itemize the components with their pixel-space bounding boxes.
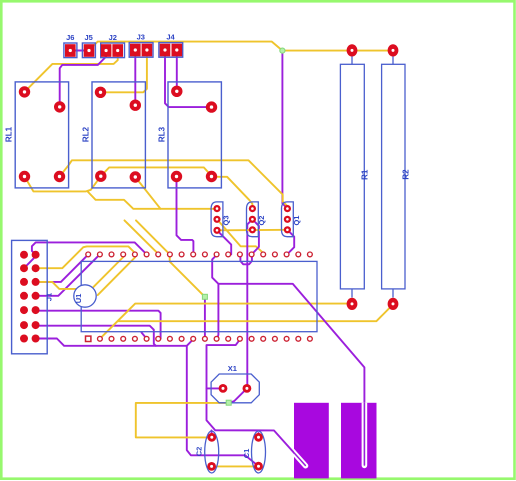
svg-text:J5: J5 bbox=[85, 33, 93, 42]
wire J1-R6 run bbox=[36, 325, 156, 346]
svg-text:J4: J4 bbox=[166, 33, 175, 42]
wire RL1 pad3 to RL2 pad3 bbox=[25, 176, 101, 191]
resistor R1 bbox=[340, 56, 364, 298]
wire stub C2 top bbox=[211, 430, 213, 436]
via node A bbox=[280, 48, 285, 53]
wire J3 to RL2 pad1 bbox=[101, 53, 147, 92]
svg-text:RL1: RL1 bbox=[5, 126, 14, 142]
wire RL2 pad4 diag bbox=[135, 177, 160, 209]
svg-text:Q3: Q3 bbox=[222, 215, 231, 225]
svg-text:C1: C1 bbox=[242, 449, 251, 459]
transistor Q2 pads bbox=[249, 205, 256, 212]
wire via2 down bbox=[204, 297, 206, 339]
wire RL1 pad4 to Q1 bbox=[60, 160, 288, 206]
wire down to bottom pin bbox=[217, 284, 218, 339]
svg-text:R1: R1 bbox=[361, 169, 370, 180]
wire J6 to J5 bbox=[70, 50, 89, 52]
wire U1 to X1/C2/pour bbox=[207, 339, 306, 466]
wire branch X1 pad1 bbox=[207, 387, 224, 389]
wire Q3 pad2 to U1 bbox=[217, 219, 264, 254]
wire J1 to U1 bottom pin6 bbox=[36, 310, 161, 339]
svg-text:RL2: RL2 bbox=[81, 126, 90, 142]
wire J1-1 over U1 to pin bbox=[32, 242, 147, 254]
wire pads hook bbox=[240, 254, 252, 264]
wire net J5 to R1/R2 top bbox=[89, 42, 393, 51]
connector J6 bbox=[64, 43, 77, 58]
via node B bbox=[202, 294, 207, 299]
transistor Q1 pads bbox=[284, 205, 291, 212]
wire U1 pad7 to via2 bbox=[170, 254, 205, 296]
wire stub pad5B bbox=[142, 333, 147, 339]
wire Q1 pad3 to U1 bbox=[287, 230, 294, 255]
transistor Q3 pads bbox=[213, 205, 220, 212]
wire J2 to RL1 pad2 bbox=[60, 53, 106, 107]
wire RL2 pad3 to RL3 pad4 bbox=[101, 167, 212, 176]
svg-text:J2: J2 bbox=[109, 33, 117, 42]
relay RL3 bbox=[168, 82, 221, 188]
op-amp U1 outline bbox=[74, 261, 317, 331]
wire Q2 to U1 bbox=[252, 219, 259, 254]
capacitor C2 bbox=[205, 431, 219, 473]
relay RL1 pads bbox=[19, 86, 30, 97]
via node C bbox=[226, 400, 231, 405]
relay RL2 pads bbox=[95, 87, 106, 98]
IC U1 top pad row bbox=[86, 252, 313, 257]
crystal X1 bbox=[211, 374, 259, 403]
wire J1-R7 to U1 bbox=[36, 339, 194, 346]
copper pour area left bbox=[294, 403, 329, 479]
wire RL3 pad4 to Q2 pad1 bbox=[212, 177, 253, 209]
wire X1 via to C2 top bbox=[136, 403, 229, 438]
wire J1 to U1 pad1 bbox=[36, 254, 89, 282]
connector J5 bbox=[82, 43, 95, 58]
svg-text:J3: J3 bbox=[137, 33, 145, 42]
wire U1 to right pour bbox=[212, 255, 364, 402]
svg-text:R2: R2 bbox=[402, 169, 411, 180]
wire J3 to RL2 pad2 bbox=[134, 53, 136, 105]
wire diag to U1 pad7 bbox=[136, 220, 170, 254]
wire to U1 pad3 bbox=[36, 254, 124, 289]
svg-text:U1: U1 bbox=[74, 294, 83, 304]
svg-text:J1: J1 bbox=[45, 293, 54, 301]
wire branch to C1 bottom bbox=[187, 346, 259, 466]
wire J4 to RL3 pad2 bbox=[165, 53, 212, 107]
wire RL3 pad3 to U1 bbox=[177, 177, 194, 255]
connector J4 bbox=[159, 43, 183, 58]
transistor Q1 bbox=[282, 202, 294, 237]
wire to U1 pad4 diag bbox=[98, 258, 135, 296]
connector J2 bbox=[101, 43, 125, 58]
resistor R2 bbox=[382, 56, 405, 298]
wire J2 to RL1 pad1 bbox=[25, 55, 118, 92]
connector J3 bbox=[129, 43, 153, 58]
wire X1 pad2 to via3 bbox=[230, 388, 247, 402]
wire Q3 pad3 to U1 bbox=[217, 230, 231, 254]
capacitor C1 bbox=[252, 431, 266, 473]
transistor Q2 bbox=[247, 202, 259, 237]
wire J1 to U1 pad2 bbox=[36, 254, 100, 295]
relay RL1 bbox=[15, 82, 68, 188]
svg-text:RL3: RL3 bbox=[157, 126, 166, 142]
connector J1 bbox=[12, 240, 48, 353]
wire J1 link bbox=[24, 256, 36, 269]
IC U1 bottom pad row bbox=[86, 336, 313, 341]
wire branch to R2 bottom bbox=[118, 304, 393, 321]
crystal X1 pads bbox=[219, 384, 228, 393]
wire Q3-Q2-Q1 bottom pads bbox=[217, 229, 287, 232]
svg-text:Q1: Q1 bbox=[292, 215, 301, 225]
wire C2 to C1 bottom bbox=[212, 465, 259, 467]
wire J1 to U1 pad5 bbox=[36, 246, 135, 268]
connector J1 pads bbox=[20, 251, 40, 343]
svg-text:X1: X1 bbox=[228, 364, 237, 373]
wire diag to U1 pad6 bbox=[125, 220, 159, 254]
wire branch to Q3 pad1 bbox=[88, 191, 218, 208]
relay RL2 bbox=[92, 82, 145, 188]
transistor Q3 bbox=[211, 202, 223, 237]
svg-text:Q2: Q2 bbox=[257, 215, 266, 225]
wire via to Q1 pin1 bbox=[282, 51, 287, 209]
svg-text:C2: C2 bbox=[195, 447, 204, 457]
wire J4 to RL3 pad1 bbox=[176, 53, 178, 91]
wire U1 to R1 bottom bbox=[100, 304, 352, 339]
wire C1 top stub bbox=[258, 433, 260, 437]
svg-text:J6: J6 bbox=[66, 33, 74, 42]
copper pour area right bbox=[341, 403, 377, 479]
relay RL3 pads bbox=[171, 86, 182, 97]
wire Q2 pad2 to X1 pad2 bbox=[247, 219, 252, 388]
